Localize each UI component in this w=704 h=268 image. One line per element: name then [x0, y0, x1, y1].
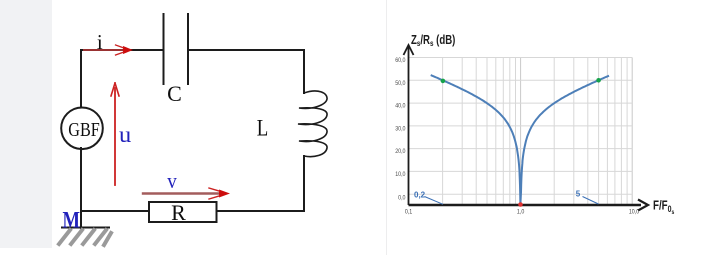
- wire top-left horizontal: [81, 49, 163, 51]
- x axis title F/F0s: [653, 199, 674, 216]
- x axis: [409, 200, 649, 211]
- wire top-right horizontal: [188, 49, 304, 51]
- svg-text:5: 5: [576, 189, 581, 198]
- grid vertical major lines: [521, 58, 633, 206]
- wire left vertical upper: [80, 50, 82, 108]
- left gray sidebar band: [0, 0, 52, 248]
- resistor R1 box: [149, 200, 217, 225]
- svg-text:F/F0s: F/F0s: [653, 199, 674, 216]
- wire bottom-left horizontal: [81, 210, 149, 212]
- wire right vertical lower: [303, 156, 305, 211]
- annotation 5: [576, 189, 599, 204]
- inductor L1 coil: [298, 91, 327, 157]
- marker point f=0.2: [441, 79, 446, 84]
- svg-text:R: R: [171, 200, 186, 225]
- wire left vertical lower: [80, 148, 82, 228]
- ground bar: [62, 227, 109, 229]
- response curve: [431, 75, 609, 204]
- voltage u arrow: [111, 83, 119, 185]
- svg-text:0,1: 0,1: [405, 208, 413, 216]
- svg-text:v: v: [167, 168, 177, 193]
- wire right vertical upper: [303, 50, 305, 93]
- y axis: [404, 45, 414, 205]
- svg-text:GBF: GBF: [68, 119, 100, 141]
- y tick labels: [395, 56, 406, 201]
- seam line between images: [386, 0, 387, 255]
- svg-text:20,0: 20,0: [395, 148, 406, 156]
- voltage v arrow: [143, 188, 230, 199]
- marker point f=5: [596, 78, 601, 83]
- svg-text:M: M: [63, 207, 81, 232]
- svg-text:L: L: [257, 116, 269, 141]
- svg-text:1,0: 1,0: [517, 208, 525, 216]
- svg-text:60,0: 60,0: [395, 56, 406, 64]
- svg-text:10,0: 10,0: [395, 170, 406, 178]
- marker point f=1: [518, 202, 523, 207]
- svg-text:0,0: 0,0: [398, 194, 406, 202]
- svg-text:Zs/Rs (dB): Zs/Rs (dB): [411, 34, 456, 49]
- svg-text:50,0: 50,0: [395, 79, 406, 87]
- x tick labels: [405, 208, 640, 216]
- svg-text:C: C: [167, 81, 182, 106]
- ground hatching: [59, 230, 111, 245]
- current i arrow: [84, 45, 133, 55]
- grid vertical minor lines: [443, 58, 627, 206]
- svg-text:40,0: 40,0: [395, 102, 406, 110]
- svg-text:u: u: [119, 122, 132, 147]
- y axis title Zs/Rs (dB): [411, 34, 456, 49]
- grid horizontal lines: [409, 58, 633, 195]
- svg-text:10,0: 10,0: [629, 208, 640, 216]
- generator GBF: [61, 108, 103, 150]
- capacitor C1 plates: [164, 14, 189, 84]
- annotation 0,2: [414, 190, 443, 204]
- svg-text:0,2: 0,2: [414, 190, 426, 199]
- svg-text:30,0: 30,0: [395, 125, 406, 133]
- wire bottom-right horizontal: [217, 210, 305, 212]
